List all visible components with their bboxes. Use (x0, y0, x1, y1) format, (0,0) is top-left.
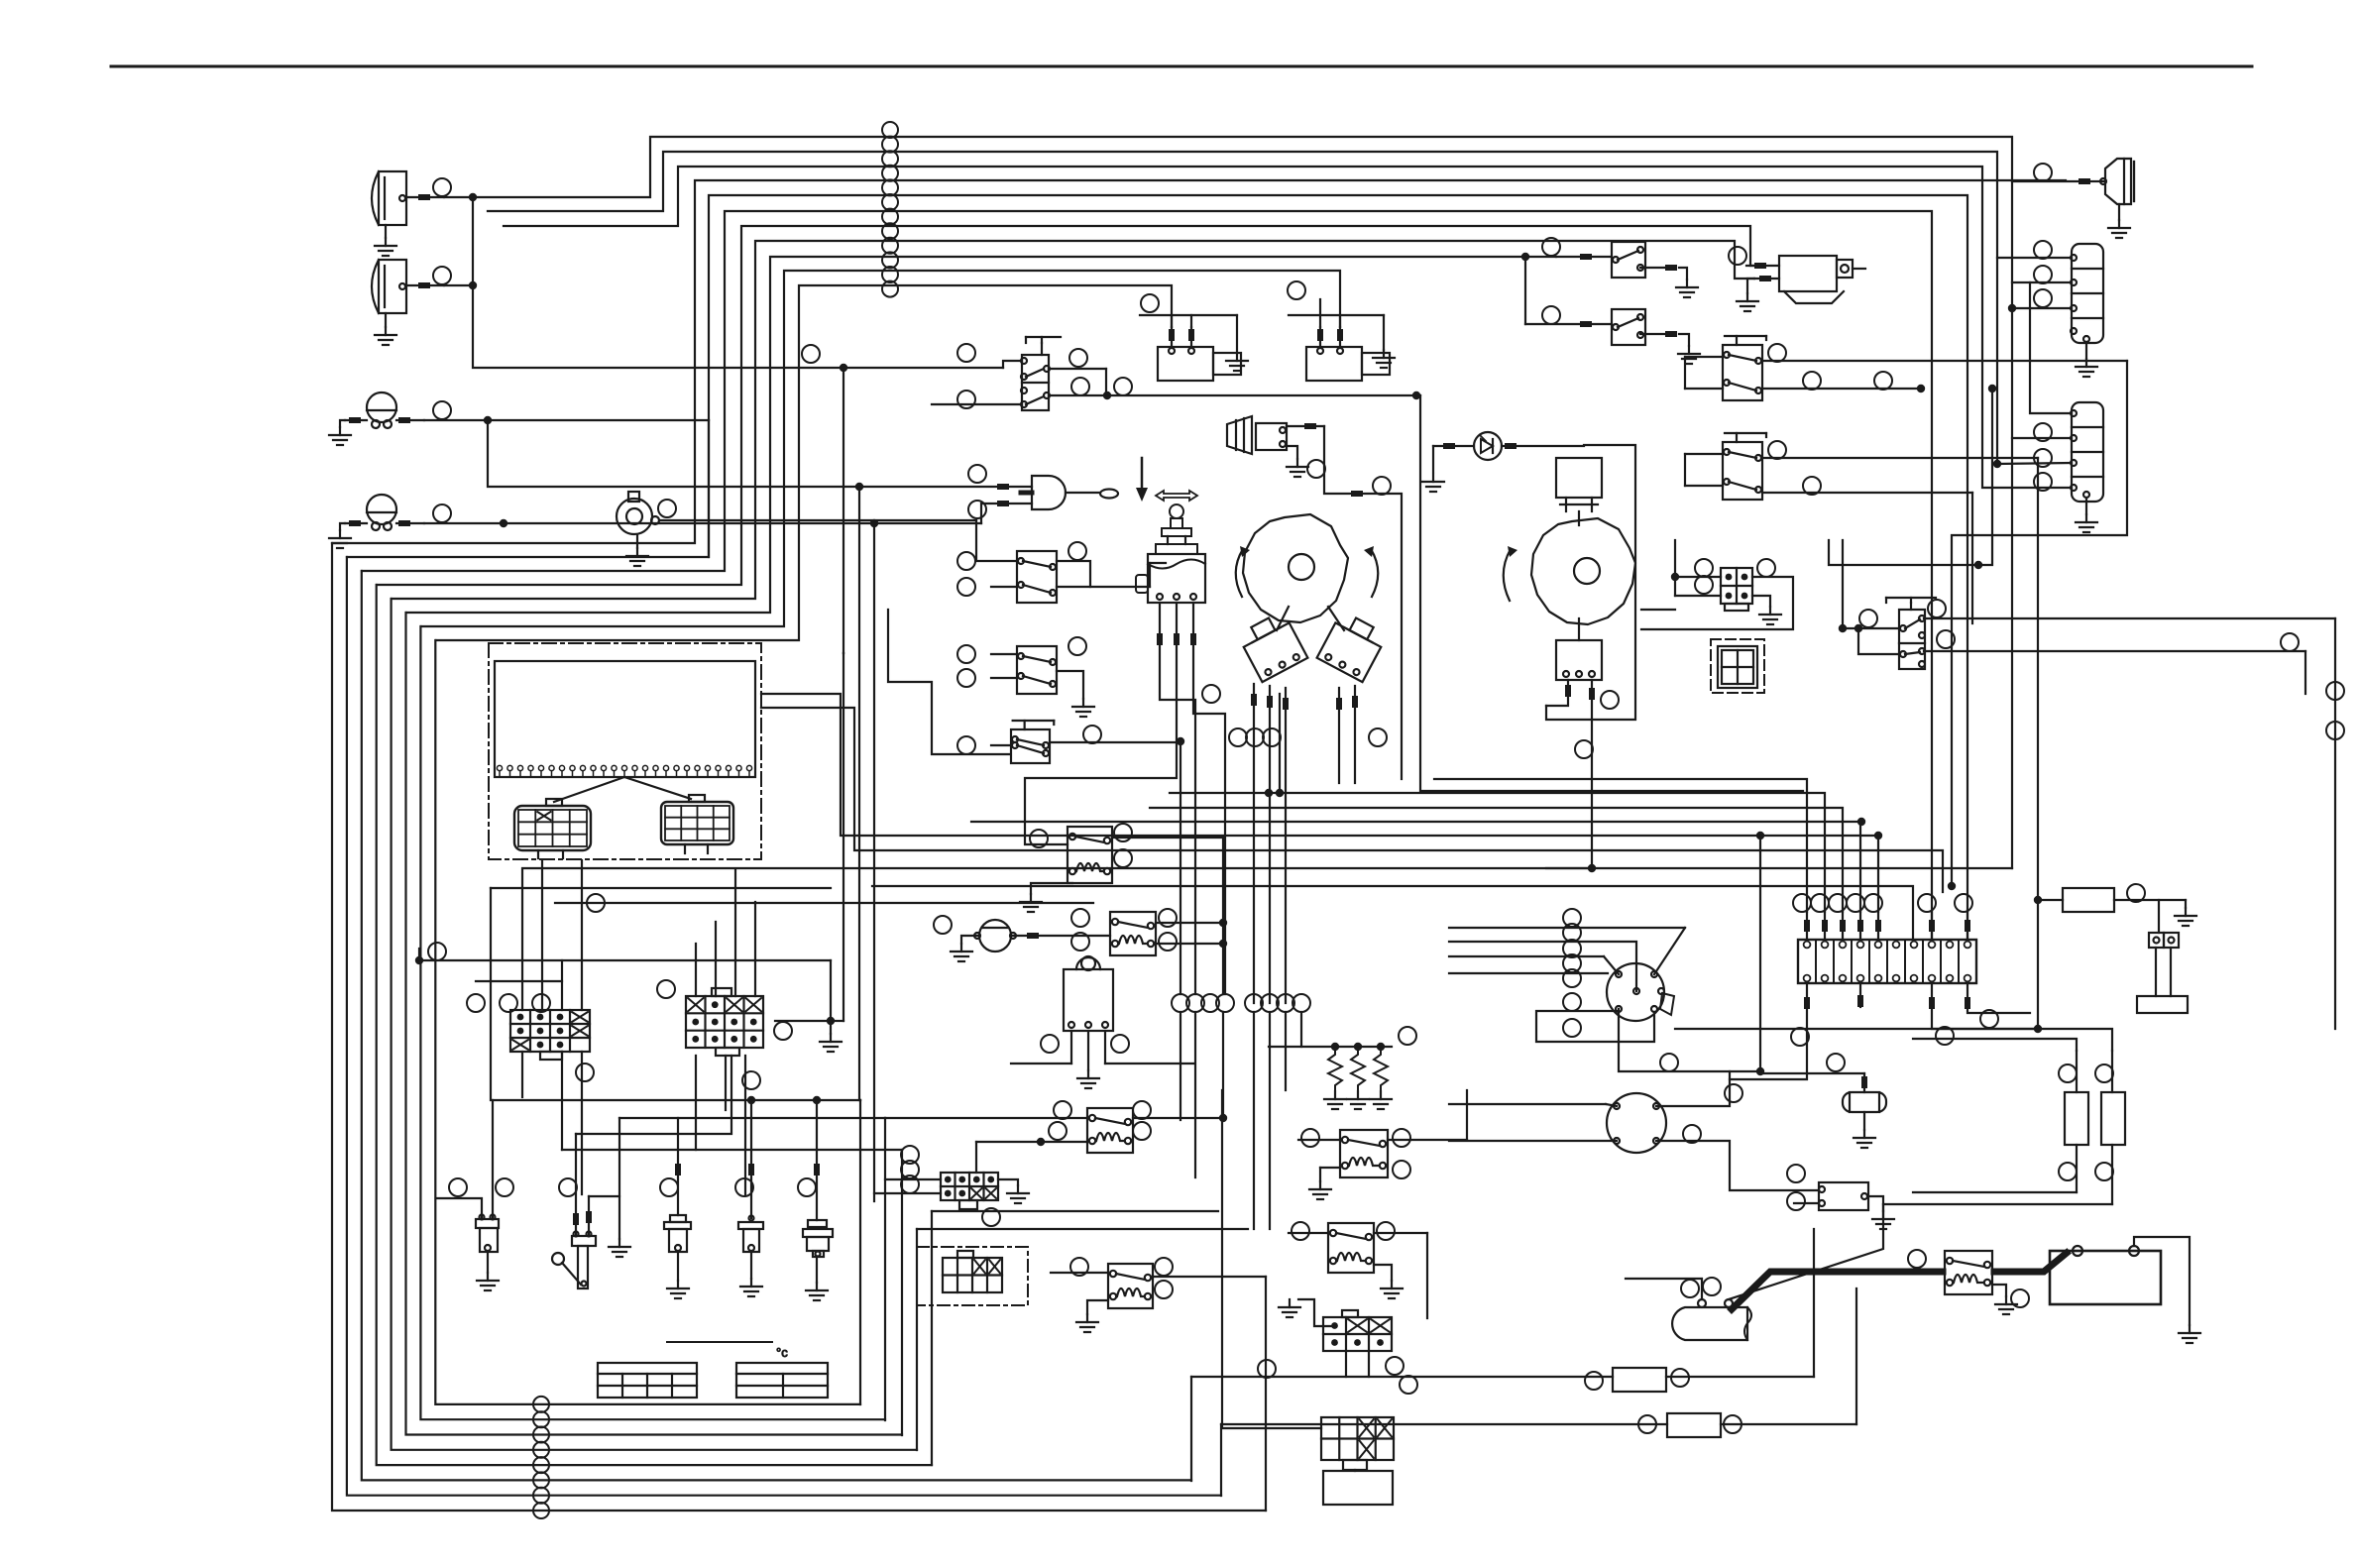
safety relay SR (1787, 1165, 1894, 1229)
rotary plate P2 (1504, 518, 1635, 624)
wire bus line5 (362, 211, 1932, 940)
alternator ALT (1449, 928, 1685, 1021)
starter motor SM (1626, 1204, 1883, 1340)
connector circles column top (882, 122, 898, 297)
sender S3 coolant temp (660, 1118, 691, 1298)
horn circle (2034, 164, 2052, 181)
wire headlamp vertical bus (473, 197, 1022, 372)
svg-text:°c: °c (776, 1345, 788, 1360)
wires SW7 (1829, 385, 2344, 1029)
circles row center (1172, 994, 1310, 1012)
sender S4 (735, 1100, 763, 1296)
horn H1 (2012, 159, 2134, 238)
wire L4 (424, 504, 1032, 527)
relay R3 (885, 1101, 1227, 1153)
connector CN4 (874, 1142, 1029, 1226)
switch SW9 (1525, 306, 1700, 364)
wire bus line8 (406, 257, 1525, 613)
box B1 (1323, 1471, 1393, 1505)
wire L3 (424, 416, 709, 557)
fuse box pins (1730, 894, 2038, 1079)
connector CN6 (1279, 1299, 1417, 1394)
wires P2 (1546, 680, 1619, 872)
connector grid CG2 (657, 980, 792, 1089)
wire SW1 out (1049, 349, 1420, 399)
connector CN7 (1321, 1417, 1394, 1471)
wire bus line10 (436, 285, 1172, 640)
wire drop b (858, 487, 860, 1100)
diode pack DP (1011, 956, 1194, 1088)
cluster pointer lines (554, 777, 691, 802)
alt wires (1449, 928, 1764, 1075)
rear lamp RL2 (2030, 282, 2103, 532)
flasher F1 (1140, 294, 1248, 381)
wire bundle left verticals (332, 543, 1266, 1511)
gauge G1 (617, 492, 659, 566)
wires P1 (1251, 684, 1358, 1003)
relay R4 (1051, 1258, 1266, 1332)
table line (667, 1341, 772, 1343)
link wires left (415, 860, 1093, 1100)
cluster pins row (497, 765, 751, 777)
wire drop a (843, 653, 844, 1021)
fuse box FB (1798, 940, 1976, 983)
gauge cluster A (514, 799, 591, 858)
sender S5 (798, 1100, 833, 1300)
wire SW2 out (1057, 542, 1150, 587)
switch SW2 (957, 551, 1057, 603)
relay R1 (1020, 824, 1223, 994)
turn unit T1 (1227, 416, 1287, 454)
wire bus line2 (504, 167, 2072, 488)
center drop wires (1180, 1012, 1301, 1229)
switch SW6 (1723, 433, 1766, 500)
center bus wires (522, 694, 2012, 940)
gauge cluster B (661, 795, 733, 853)
border rule (111, 65, 2252, 68)
relay R5 (1298, 1090, 1467, 1199)
resistor box RB2 (1191, 1229, 1814, 1392)
switch SW8 (1521, 238, 1698, 324)
wire SW3 out (1057, 637, 1094, 717)
wire SW4 out (888, 610, 1184, 994)
switch P2 bottom (1556, 618, 1602, 680)
rear lamp RL1 (2034, 241, 2103, 377)
wire G1 (659, 520, 1017, 561)
flasher F2 (1288, 281, 1395, 381)
wire L1 to bus (444, 193, 477, 201)
terminal circle L1 (433, 178, 451, 196)
assorted wires A (843, 563, 1675, 868)
motor M1 (1729, 247, 1865, 311)
wires T1 (1287, 423, 1402, 779)
knob K1 (968, 465, 1118, 518)
ballast resistors (1269, 1027, 1416, 1109)
switch SW1 (932, 337, 1061, 410)
alt circles (1563, 909, 1742, 1143)
lever contact unit P1a (1237, 607, 1307, 682)
CG2 wires (696, 870, 842, 1194)
wire knob feed (488, 420, 1032, 491)
wire drop c (873, 523, 875, 1201)
sender bus (493, 1096, 860, 1104)
arrow down (1136, 458, 1148, 502)
condenser (1756, 832, 1886, 1148)
relay R6 (1289, 1222, 1427, 1318)
switch SW3 (957, 645, 1057, 694)
wire bus line11 (843, 368, 844, 653)
key switch KS (1136, 504, 1205, 603)
connector CN1 (1641, 540, 1793, 629)
right loop wires (1675, 1025, 2112, 1204)
terminal circle G1 (658, 500, 676, 517)
connector CN5 (917, 1247, 1028, 1305)
switch SW5 (1723, 336, 1766, 400)
switch SW4 (957, 721, 1054, 763)
terminal circle L4 (433, 504, 451, 522)
switch P2 top (1556, 458, 1602, 525)
hour meter HM (934, 916, 1110, 961)
wire bus line7 (392, 241, 1754, 599)
battery BAT (2050, 1237, 2200, 1343)
wire bus line6 (377, 226, 1756, 585)
arrow lr (1156, 491, 1197, 501)
CG1 wires (522, 870, 582, 1194)
wires SW5 (1685, 344, 2127, 890)
wire bus line3 (332, 180, 2066, 543)
wire bus line4 (347, 195, 1967, 940)
switch SW7 (1886, 598, 1936, 669)
sender S2 fuel (552, 1056, 731, 1288)
connector grid CG1 (467, 994, 594, 1081)
circles P1 (1229, 728, 1387, 746)
connector CN3 (2137, 933, 2188, 1013)
fusible links (2059, 1051, 2125, 1204)
headlamp L2 (372, 260, 444, 345)
headlamp L1 (372, 171, 444, 256)
thick battery cable (1732, 1253, 2067, 1309)
wire risers from bottom bundle (860, 1100, 1266, 1511)
wires SW6 (1685, 441, 2038, 900)
diode D1 (1422, 432, 1584, 492)
wire bus line0 (473, 137, 2072, 868)
table T1 (598, 1363, 697, 1398)
connector circles column bottom-left (533, 1397, 549, 1518)
center bus risers (1276, 694, 1284, 797)
wire bus line1 (488, 152, 2072, 468)
key switch wires (1025, 603, 1225, 994)
starter relay R7 (1908, 1250, 2029, 1314)
connector CN2 (1711, 639, 1764, 693)
wire L2 to bus (444, 281, 477, 289)
terminal circle L2 (433, 267, 451, 284)
sender S1 oil pressure (436, 1100, 513, 1290)
assorted wires B (562, 1021, 1248, 1229)
resistor box RB (2034, 884, 2196, 1029)
rotary plate P1 (1236, 514, 1379, 622)
regulator REG (1449, 1071, 1819, 1190)
wire CN7 feed (1222, 1090, 1321, 1428)
terminal circle L3 (433, 401, 451, 419)
lamp L3 (329, 392, 424, 445)
resistor box RB3 (1221, 1288, 1856, 1437)
lever contact unit P1b (1317, 607, 1388, 682)
table T2 (736, 1345, 828, 1398)
relay R2 (1071, 909, 1227, 955)
instrument cluster box (489, 643, 761, 859)
lamp L4 (329, 495, 424, 548)
wire loop P2 (1420, 395, 1803, 791)
wire bus line9 (421, 271, 1340, 626)
